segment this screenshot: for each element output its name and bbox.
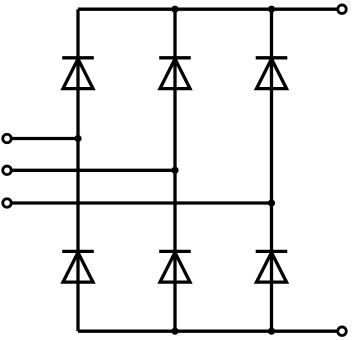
terminal: AC input phase C (left) bbox=[3, 199, 12, 208]
diode D1 (upper, leg 1) bbox=[62, 58, 94, 89]
terminal: positive output (top right) bbox=[338, 5, 347, 14]
wire: phase B input to leg 2 bbox=[11, 169, 175, 172]
wire: phase leg 1 (vertical, x=78) bbox=[76, 9, 79, 331]
wire: top positive rail bbox=[78, 8, 337, 11]
diode D4 (lower, leg 1) bbox=[62, 251, 94, 282]
junction: leg 3 / bottom rail bbox=[268, 328, 275, 335]
wire: bottom negative rail bbox=[78, 330, 337, 333]
diode D5 (upper, leg 3) bbox=[256, 58, 288, 89]
wire: phase A input to leg 1 bbox=[11, 137, 78, 140]
diode D3 (upper, leg 2) bbox=[159, 58, 191, 89]
junction: phase A / leg 1 bbox=[74, 135, 81, 142]
junction: leg 2 / top rail bbox=[171, 6, 178, 13]
junction: phase B / leg 2 bbox=[171, 167, 178, 174]
wire: phase C input to leg 3 bbox=[11, 201, 271, 204]
terminal: AC input phase A (left) bbox=[3, 134, 12, 143]
terminal: negative output (bottom right) bbox=[338, 327, 347, 336]
wire: phase leg 2 (vertical, x=175) bbox=[173, 9, 176, 331]
junction: leg 3 / top rail bbox=[268, 6, 275, 13]
diode D2 (lower, leg 3) bbox=[256, 251, 288, 282]
wire: phase leg 3 (vertical, x=271.5) bbox=[270, 9, 273, 331]
terminal: AC input phase B (left) bbox=[3, 166, 12, 175]
junction: phase C / leg 3 bbox=[268, 199, 275, 206]
diode D6 (lower, leg 2) bbox=[159, 251, 191, 282]
junction: leg 2 / bottom rail bbox=[171, 328, 178, 335]
